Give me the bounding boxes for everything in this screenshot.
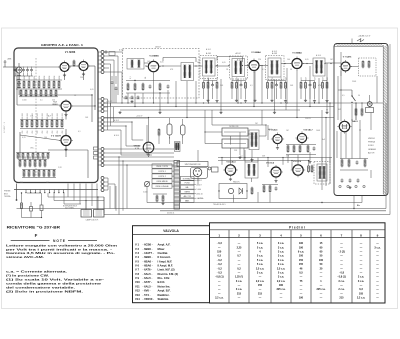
Piedini data [215,242,381,299]
svg-text:100K: 100K [54,75,56,80]
svg-text:S. 5067 - 1: S. 5067 - 1 [4,122,6,133]
svg-text:5 c.a.: 5 c.a. [257,246,264,249]
svg-text:- 0,2: - 0,2 [217,263,223,266]
svg-text:ANT.: ANT. [4,192,9,195]
svg-text:FONO: FONO [185,183,191,185]
svg-text:V 4: V 4 [135,255,140,259]
svg-text:0,5: 0,5 [342,95,345,97]
svg-text:3 c.a.: 3 c.a. [374,246,381,249]
svg-text:Ampl. A.F.: Ampl. A.F. [158,243,171,247]
antenna coil stack [17,75,21,95]
tube V5 6BA6 label [251,51,261,54]
svg-text:MAN.: MAN. [185,199,190,202]
ground symbols mid [118,111,328,163]
socket circle [191,168,208,179]
audio coupling transformer [245,158,258,182]
resistor R40 [158,128,160,136]
svg-text:100K: 100K [49,75,51,80]
svg-text:0,1: 0,1 [78,131,81,133]
bus label 85V [106,101,112,103]
discr area labels [234,123,326,152]
svg-text:V 7: V 7 [135,268,140,272]
tube V12 6V6 [291,163,305,177]
discr transformer [249,130,259,150]
svg-text:155: 155 [299,263,304,266]
svg-text:9 c.a.: 9 c.a. [298,251,305,254]
noise limiter box upper [222,126,248,136]
svg-text:NBFM: NBFM [185,192,191,194]
svg-text:- 0,8: - 0,8 [339,271,345,274]
svg-text:2 M: 2 M [286,156,289,158]
svg-text:- VR150 -: - VR150 - [143,297,155,301]
wires speaker feed [48,193,104,213]
antenna coil L1 [13,63,22,78]
svg-text:V 4 6BE6: V 4 6BE6 [149,55,159,58]
svg-text:Stabilizz.: Stabilizz. [158,297,170,301]
svg-text:I Ampl. M.F.: I Ampl. M.F. [158,259,173,263]
bus horizontal mid [104,103,383,118]
svg-text:6AL5: 6AL5 [352,120,358,123]
svg-text:0,5: 0,5 [299,271,303,274]
rectifier bridge subcircuit [218,180,253,198]
resistor bank row C [18,155,47,167]
svg-text:220: 220 [52,100,55,102]
svg-text:- 0,3: - 0,3 [217,271,223,274]
band switch wafer [174,161,180,210]
svg-text:A 30.9: A 30.9 [197,184,202,187]
svg-text:190: 190 [299,246,304,249]
svg-text:5 c.a.: 5 c.a. [257,255,264,258]
svg-text:V 6 6BA6: V 6 6BA6 [292,52,302,55]
svg-text:A 101: A 101 [206,52,212,55]
svg-text:0,05: 0,05 [305,59,309,61]
IF transformer MF3 [268,52,281,77]
svg-text:150: 150 [217,251,222,254]
speaker boxes labels [63,205,78,210]
NOTE paragraph [6,243,117,259]
Piedini column headers [218,233,378,237]
svg-text:Riv.- CAV.: Riv.- CAV. [158,276,171,280]
svg-text:- 6AT6 -: - 6AT6 - [143,268,153,272]
label A305 [213,203,226,206]
input cap row [14,67,33,77]
vertical drops IF strip [122,63,370,203]
bias network limiter stage [300,76,316,99]
svg-text:A 10.3: A 10.3 [272,50,277,53]
antenna terminal [3,58,16,68]
tube V14 VR150 [143,142,154,153]
svg-text:0,2: 0,2 [237,267,241,270]
tube V5 6BA6 [247,59,261,73]
svg-text:3 c.a.: 3 c.a. [278,259,285,262]
switch S2 [351,90,355,103]
wire middle horizontals [108,118,149,155]
svg-text:VALVOLA: VALVOLA [163,229,179,233]
svg-text:V 2: V 2 [135,247,140,251]
svg-text:190: 190 [299,297,304,300]
svg-text:250: 250 [37,131,39,134]
tube V8 6AL5 [337,119,351,133]
tube V8 6AL5 label [352,120,358,123]
svg-text:Discrim. F.M. (2): Discrim. F.M. (2) [158,272,179,276]
svg-text:Noise lim.: Noise lim. [158,284,171,288]
tube V7 6AT6 [339,60,352,73]
grid resistor between V1 sections [73,60,75,67]
svg-text:5 c.a.: 5 c.a. [257,263,264,266]
svg-text:Raddrizz.: Raddrizz. [158,293,170,297]
svg-text:3 c.a.: 3 c.a. [278,263,285,266]
tube V4 6BE6 label [149,55,159,58]
svg-text:150: 150 [258,284,263,287]
resistor bank row D [22,169,56,177]
label GRUPPO A.F. [41,43,84,47]
svg-text:6AL5: 6AL5 [268,128,272,131]
tuner title box [177,162,208,167]
svg-text:220: 220 [258,59,261,61]
terminal strip connector [99,51,108,167]
svg-text:3 c.a.: 3 c.a. [236,280,243,283]
electrolytic C40 [167,118,172,139]
svg-text:50.000: 50.000 [27,113,29,119]
campo label [86,219,100,222]
VALVOLA header [163,229,179,233]
tube V2 6BE6 label [52,102,58,106]
svg-text:Oscillat.: Oscillat. [158,251,169,255]
output transformer dashed [314,162,330,185]
svg-text:AM / CW: AM / CW [184,195,191,198]
second label column [194,179,204,200]
svg-text:V14: V14 [135,297,140,301]
dropper resistor hatched [175,142,181,152]
svg-text:OSC.: OSC. [30,148,35,150]
tube V10 6C4 bfo [266,162,283,183]
svg-text:Ampl. B.F.: Ampl. B.F. [158,289,171,293]
Piedini table frame [210,223,386,303]
bus bottom [17,44,391,215]
svg-text:2,25: 2,25 [237,246,242,249]
connector pads [94,147,99,159]
VALVOLA table frame [133,226,210,303]
IF transformer MF2 [232,52,245,77]
svg-text:190: 190 [299,242,304,245]
svg-text:V12: V12 [135,289,140,293]
voltage reg label VR150 [134,146,141,151]
svg-text:A 30.10: A 30.10 [197,193,203,196]
tube V11 6AL5 [223,163,237,177]
svg-text:A 10.2: A 10.2 [237,58,242,61]
svg-text:250: 250 [57,131,59,134]
svg-text:V 5 6BA6: V 5 6BA6 [251,51,261,54]
svg-text:3 c.a.: 3 c.a. [278,251,285,254]
svg-text:- 6AL5 -: - 6AL5 - [143,284,153,288]
svg-text:- 0,2: - 0,2 [217,259,223,262]
svg-text:180: 180 [279,284,284,287]
svg-text:V 3: V 3 [135,251,140,255]
svg-text:ONDE CORTE: ONDE CORTE [156,166,169,168]
svg-text:+ ALIM. 6,3 V: + ALIM. 6,3 V [358,35,371,38]
svg-text:GRUPPO A.F. e FASC. 1: GRUPPO A.F. e FASC. 1 [41,43,84,47]
psu inner extras [355,102,363,120]
Piedini title [289,225,305,229]
svg-text:V11: V11 [135,284,140,288]
svg-text:GAMMA: GAMMA [197,197,205,200]
svg-text:- 6V6 -: - 6V6 - [143,289,151,293]
NOTE heading [11,239,97,243]
gang caps row below converter [125,96,140,103]
speaker box 1 [81,210,92,218]
svg-text:V 3 12AT7: V 3 12AT7 [51,135,62,138]
tube V10 6C4 label [303,128,313,131]
svg-text:- 2 (2): - 2 (2) [338,251,345,254]
svg-text:50.000: 50.000 [62,113,64,119]
svg-text:150: 150 [299,259,304,262]
resistors mid-right [286,145,316,155]
IF transformer MF4 [313,58,325,76]
svg-text:0,7: 0,7 [237,255,241,258]
svg-text:100K: 100K [59,75,61,80]
function labels right boxed [180,176,195,202]
svg-text:V 9: V 9 [135,276,140,280]
label A 301 [155,46,161,49]
tube V1 section a [58,61,71,74]
tube V10 6C4 [295,131,308,144]
svg-text:100: 100 [44,137,47,139]
enclosure hatch border [334,44,387,195]
svg-text:- 0,2: - 0,2 [217,267,223,270]
relay dashed box [359,58,377,76]
terminal row below RF box [14,190,98,194]
svg-text:V13: V13 [135,293,140,297]
terminal note text [4,191,11,199]
svg-text:0,1: 0,1 [40,100,43,102]
tuning gang dashed link [35,58,37,178]
svg-text:215: 215 [339,297,344,300]
IF transformer MF1 [203,52,216,76]
svg-text:V12 6V6: V12 6V6 [293,161,302,163]
svg-text:250: 250 [52,131,54,134]
tube V9 6AL5 [271,132,284,145]
svg-text:SW: SW [338,109,341,111]
audio band wires [218,150,332,181]
svg-text:0,5: 0,5 [218,255,222,258]
svg-text:TELAIO A 30.5: TELAIO A 30.5 [213,203,226,206]
wire RF box internal [16,66,96,178]
IF transformer T1 [127,59,144,70]
svg-text:- 6AL5 -: - 6AL5 - [143,276,153,280]
resistor bank row A [16,75,62,89]
svg-text:500: 500 [20,182,23,184]
svg-text:V 1 6CB6: V 1 6CB6 [65,51,76,54]
svg-text:250: 250 [47,131,49,134]
svg-text:100K: 100K [44,75,46,80]
svg-text:100: 100 [319,259,324,262]
svg-text:5 c.a.: 5 c.a. [278,271,285,274]
coupling arc V4 stage [163,58,196,63]
svg-text:A 10.4: A 10.4 [316,54,321,57]
grounds under V1 V2 V3 [63,73,85,151]
svg-text:V10: V10 [135,280,140,284]
tube V3 12AT7 [59,134,73,148]
input trimmer group [105,49,124,56]
svg-text:SINTONIZZAT. FM: SINTONIZZAT. FM [185,163,201,166]
RF unit enclosure GRUPPO A.F. [14,48,98,183]
pilot lamp [366,102,374,113]
svg-text:RICEVITORE “G 207-BR: RICEVITORE “G 207-BR [7,226,61,230]
svg-text:Mixer: Mixer [158,247,165,251]
svg-text:2,2 c.a.: 2,2 c.a. [277,280,286,283]
svg-text:3 c.a.: 3 c.a. [236,288,243,291]
svg-text:PRESA: PRESA [368,141,375,144]
svg-text:5.000: 5.000 [197,189,202,191]
tube V12 6V6 label [293,161,302,163]
svg-text:250: 250 [32,131,34,134]
svg-text:250: 250 [27,131,29,134]
svg-text:0,05: 0,05 [222,62,226,64]
oscillator coil box [181,63,194,81]
svg-text:215: 215 [237,292,242,295]
svg-text:V10 6AL7: V10 6AL7 [303,128,313,131]
svg-text:100K: 100K [24,75,26,80]
svg-text:- 6BE6 -: - 6BE6 - [143,255,153,259]
svg-text:A 30.3: A 30.3 [114,119,119,122]
svg-text:3 c.a.: 3 c.a. [278,276,285,279]
svg-text:4 A 30.11: 4 A 30.11 [167,212,174,215]
tube V9 6AL5 label [269,128,279,131]
svg-text:A 10.1: A 10.1 [206,48,211,51]
svg-text:V 5: V 5 [135,259,140,263]
legend paragraph [6,270,104,294]
coupling arc V5 stage [217,57,243,63]
svg-text:3 c.a.: 3 c.a. [358,280,365,283]
title F [35,233,38,238]
resistor bank row C2 [16,152,50,159]
svg-text:V 6: V 6 [135,264,140,268]
svg-text:ALTOP.: ALTOP. [368,151,375,154]
svg-text:sizione AVC-AM.: sizione AVC-AM. [6,255,44,259]
svg-text:2 c.a.: 2 c.a. [338,288,345,291]
resistors by output [308,165,313,173]
svg-text:ANT.: ANT. [8,58,13,61]
svg-text:- 6BA6 -: - 6BA6 - [143,264,153,268]
svg-text:3 c.a.: 3 c.a. [278,242,285,245]
svg-text:325 c.a.: 325 c.a. [276,288,285,291]
svg-text:- 0,8 (1): - 0,8 (1) [337,276,346,279]
svg-text:2,2 c.a.: 2,2 c.a. [256,280,265,283]
fourth circle group [101,177,115,209]
svg-text:3 c.a.: 3 c.a. [278,246,285,249]
svg-text:CORTE 1: CORTE 1 [158,171,166,173]
svg-text:F: F [35,233,38,238]
svg-text:0,05: 0,05 [160,62,164,64]
svg-text:0,05: 0,05 [90,89,94,91]
svg-text:100K: 100K [29,75,31,80]
wires noise limiter [204,110,266,144]
relay box [208,167,218,172]
svg-text:1,25 (*): 1,25 (*) [235,276,243,279]
svg-text:5 c.a.: 5 c.a. [257,259,264,262]
enclosure internal wires [338,52,377,188]
svg-text:100: 100 [299,255,304,258]
resistor bank row A2 [19,89,58,97]
svg-text:GRAMM.: GRAMM. [368,148,377,151]
svg-text:V11 6AL5: V11 6AL5 [226,161,236,164]
bias network V7 stage [267,76,288,99]
svg-text:5 c.a.: 5 c.a. [257,242,264,245]
mid caps [111,76,118,103]
svg-text:- 6BA6 -: - 6BA6 - [143,259,153,263]
svg-text:TERRA: TERRA [4,195,11,198]
noise limiter box lower [222,139,248,148]
margin note vertical [4,122,6,133]
svg-text:V10 6C4: V10 6C4 [266,162,275,165]
svg-text:50.000: 50.000 [52,113,54,119]
speaker box 2 [94,210,105,218]
IF strip value labels [147,48,360,120]
svg-text:Limit. M.F. (2): Limit. M.F. (2) [158,268,175,272]
svg-text:250: 250 [62,131,64,134]
tube V2 6BE6 [59,99,73,113]
resistor bank row B [20,113,64,133]
antenna ground stub [16,184,18,201]
ground under V14 [147,154,150,157]
tube V3 12AT7 label [51,135,62,138]
svg-text:2 c.a.: 2 c.a. [358,276,365,279]
power resistors [340,159,368,171]
power unit enclosure [334,44,388,196]
IF transformer MF3 dashed enclosure [266,56,285,80]
converter section dashed enclosure [123,49,200,99]
bus top feeds [108,52,123,106]
svg-text:100: 100 [197,62,200,64]
svg-text:ONDE MEDIE: ONDE MEDIE [156,181,168,183]
svg-text:DISCR.: DISCR. [305,118,312,120]
svg-text:A 30.1: A 30.1 [119,49,124,52]
svg-text:2,2 c.a.: 2,2 c.a. [215,297,224,300]
svg-text:II Ampl. M.F.: II Ampl. M.F. [158,264,174,268]
bottom right parts [262,185,278,193]
small parts under pot [153,194,167,205]
svg-text:250: 250 [22,131,24,134]
tube V6 6BA6 [290,57,304,71]
svg-text:V 7 6AT6: V 7 6AT6 [343,56,352,59]
grounds under IF clusters [203,71,315,104]
tube V4 6BE6 [146,59,160,73]
svg-text:+150 V: +150 V [136,116,143,118]
svg-text:- 0,3: - 0,3 [217,242,223,245]
bias network V5 stage [203,76,219,99]
svg-text:50: 50 [358,95,360,97]
tube V11 6AL5 label [226,161,236,164]
band labels left boxed [152,164,174,188]
svg-text:- 6CB6 -: - 6CB6 - [143,243,153,247]
svg-text:CAL.: CAL. [185,186,189,189]
tube V7 6AT6 label [343,56,352,59]
svg-text:V 1: V 1 [135,243,140,247]
tube V6 6BA6 label [292,52,302,55]
svg-text:6,3: 6,3 [359,288,363,291]
svg-text:PRESE: PRESE [4,191,11,193]
svg-text:RADDR.: RADDR. [233,180,240,183]
output terminal list [368,138,377,154]
svg-text:A 307: A 307 [155,46,161,49]
svg-text:NOISE LIM.: NOISE LIM. [229,126,239,128]
svg-text:100K: 100K [34,75,36,80]
svg-text:2,5 c.a.: 2,5 c.a. [277,267,286,270]
svg-text:50.000: 50.000 [37,113,39,119]
volume pot subcircuit [21,192,43,218]
IF transformer MF2 dashed enclosure [230,56,248,79]
svg-text:FONO: FONO [368,145,374,147]
